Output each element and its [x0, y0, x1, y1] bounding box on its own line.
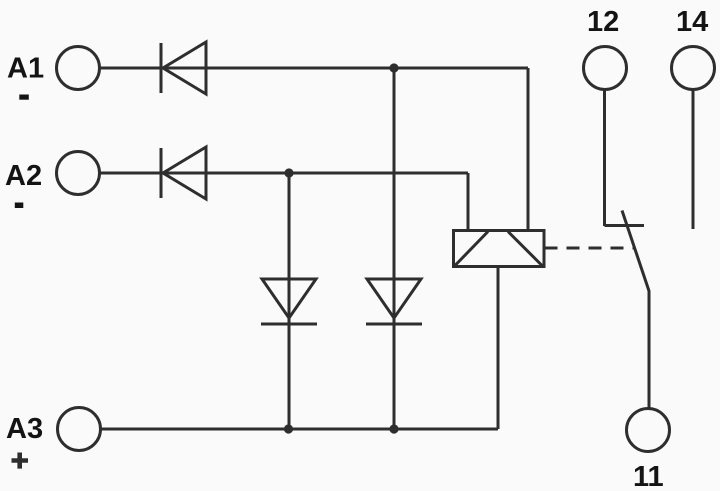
diode V1 [161, 42, 206, 94]
junction node A2/branch [284, 168, 293, 177]
wire 12 vertical [603, 90, 606, 227]
svg-text:12: 12 [587, 6, 619, 38]
diode V4 [366, 279, 422, 324]
diode V2 [161, 147, 206, 199]
contact blade (changeover) [622, 211, 649, 409]
wire bottom rail [101, 428, 499, 431]
polarity plus (A3) [12, 453, 29, 469]
wire A1 vertical to coil [527, 68, 530, 230]
svg-text:A1: A1 [7, 53, 44, 85]
polarity minus (A2) [15, 203, 23, 209]
relay coil K1 [454, 231, 545, 267]
junction node A1/branch [389, 63, 398, 72]
junction node branch-left/rail [284, 424, 293, 433]
actuator dashed link [545, 247, 635, 250]
terminal A1 [57, 47, 100, 90]
wire branch right vertical [393, 68, 396, 429]
wire A2 vertical to coil [467, 173, 470, 230]
terminal A2 [57, 152, 100, 195]
wire coil bottom [497, 267, 500, 430]
junction node branch-right/rail [389, 424, 398, 433]
wire A1 horizontal [100, 67, 529, 70]
svg-text:11: 11 [633, 461, 664, 491]
terminal A3 [58, 408, 101, 451]
svg-text:A3: A3 [6, 413, 43, 445]
wire branch left vertical [288, 173, 291, 429]
contact 12 fixed hook [605, 224, 645, 227]
wire 14 vertical [692, 90, 695, 230]
svg-text:A2: A2 [5, 160, 42, 192]
svg-text:14: 14 [676, 6, 708, 38]
terminal 14 [672, 47, 715, 90]
wire A2 horizontal [100, 172, 469, 175]
terminal 12 [584, 47, 627, 90]
polarity minus (A1) [19, 95, 29, 100]
diode V3 [261, 279, 317, 324]
terminal 11 [627, 409, 670, 452]
